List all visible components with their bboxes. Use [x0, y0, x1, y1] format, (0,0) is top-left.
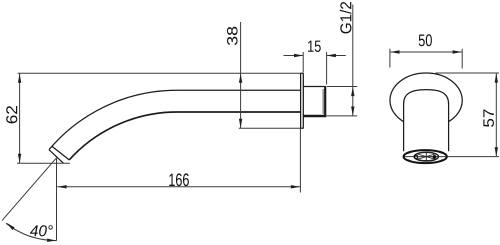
label 38 (rotated) — [227, 27, 238, 45]
dimension 15: dimension line segments with outside arrows — [284, 55, 346, 57]
label 57 (rotated) — [483, 109, 494, 126]
40 degree angle: vertical reference ray — [56, 158, 58, 241]
nipple right end edge (thick) — [324, 87, 326, 116]
front view: aerator lens arcs — [417, 153, 436, 161]
dimension 62: vertical dimension line — [19, 73, 21, 163]
front view: outlet rim thick ellipse — [404, 150, 447, 163]
front view: aerator corner ticks — [408, 152, 443, 162]
extension line: flange top level (62 dim top reference) — [18, 72, 301, 74]
40 degree angle: arc — [6, 223, 57, 240]
spout tube bottom edge (side view, shaded) — [69, 112, 300, 160]
dimension G1/2: extension lines at nipple top and bottom — [327, 87, 358, 116]
dimension G1/2: leader and thread size arrows — [352, 5, 354, 116]
dimension 38: vertical dimension line with leader — [240, 22, 242, 128]
wall flange (side view thin rectangle) — [301, 73, 304, 128]
dimension 166: dimension line — [57, 186, 300, 188]
dimension 62: bottom extension line (outlet lowest point) — [17, 162, 70, 164]
nipple right side shading — [322, 89, 324, 114]
label 62 (rotated) — [6, 106, 17, 123]
spout outlet chamfer ring edge — [52, 146, 69, 160]
front view: aerator right dot — [433, 155, 437, 159]
dimension 50: extension ticks — [390, 49, 462, 69]
front view: wall flange ellipse (bottom hidden behind tube) — [390, 73, 462, 122]
front view: aerator cross lines — [418, 152, 436, 161]
dimension 57: vertical dimension line — [495, 73, 497, 157]
dimension 166: right extension line (wall plane) — [299, 128, 301, 192]
dimension 50: dimension line with inside arrows — [390, 51, 462, 53]
front view: aerator inner ellipse — [414, 152, 438, 161]
label G1/2 (rotated) — [340, 2, 352, 33]
label 15 — [308, 41, 321, 52]
front view: spout tube with shoulder dome — [404, 90, 449, 152]
dimension 38: extension line at flange bottom — [239, 127, 304, 129]
spout outlet end face edge — [49, 150, 64, 164]
G1/2 threaded nipple outline — [303, 86, 326, 88]
label 166 — [169, 173, 189, 186]
dimension 57: top extension line (flange top tangent) — [436, 72, 500, 74]
nipple bottom edge (thick) — [303, 115, 326, 117]
label 50 — [419, 34, 432, 46]
dimension 15: extension lines — [303, 52, 326, 85]
label 40 degrees (italic) — [30, 225, 53, 236]
front view: aerator left ring — [414, 155, 417, 158]
dimension 57: bottom extension line through outlet — [404, 156, 500, 158]
spout tube top edge (side view) — [49, 90, 301, 150]
40 degree angle: spout axis ray — [2, 158, 57, 221]
